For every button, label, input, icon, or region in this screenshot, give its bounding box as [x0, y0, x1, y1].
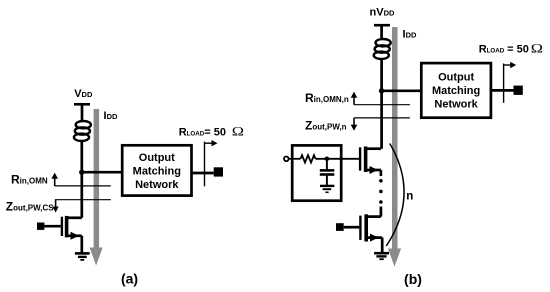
load terminal square	[214, 167, 223, 176]
node drain junction	[79, 170, 84, 175]
input terminal circle	[284, 157, 289, 162]
wire node to OMN box	[82, 171, 122, 174]
svg-text:(b): (b)	[404, 271, 422, 287]
caption (b)	[404, 271, 422, 287]
wire inductor to drain	[80, 141, 83, 218]
svg-text:IDD: IDD	[104, 110, 118, 122]
inductor L1	[74, 121, 91, 141]
wire circle to resistor	[289, 158, 301, 160]
svg-text:Matching: Matching	[133, 166, 181, 178]
label nVDD	[370, 7, 395, 19]
svg-text:Zout,PW,CS: Zout,PW,CS	[6, 200, 54, 214]
svg-text:= 50: = 50	[204, 127, 226, 139]
ground Q3	[374, 253, 389, 259]
wire OMN to load (b)	[491, 89, 514, 92]
arrow Rin up (b)	[351, 92, 358, 105]
arrow Zout down	[53, 200, 59, 213]
transistor Q2 top	[360, 147, 381, 177]
wire nVDD to inductor	[380, 25, 383, 39]
svg-text:Output: Output	[139, 152, 175, 164]
load terminal square (b)	[514, 86, 523, 95]
caption (a)	[121, 270, 138, 286]
reference line Rin	[55, 185, 111, 187]
bias network box	[292, 145, 341, 200]
wire inductor to node (b)	[380, 59, 383, 149]
bracket n	[386, 144, 404, 247]
bent arrow power to load (b)	[504, 62, 517, 68]
resistor R1 zigzag	[301, 155, 316, 162]
svg-text:Network: Network	[434, 99, 478, 111]
gate terminal square Q1	[37, 223, 44, 230]
current IDD gray arrow (b)	[388, 27, 401, 266]
label Zout,PW,n	[305, 118, 347, 132]
reference line Zout	[55, 199, 111, 201]
ground bias	[320, 186, 334, 192]
svg-text:Rin,OMN,n: Rin,OMN,n	[305, 91, 349, 105]
power rail nVDD	[374, 24, 390, 27]
label IDD (b)	[403, 29, 417, 41]
label n	[406, 191, 413, 203]
svg-text:nVDD: nVDD	[370, 7, 395, 19]
svg-text:IDD: IDD	[403, 29, 417, 41]
label Zout,PW,CS	[6, 200, 54, 214]
wire resistor to node	[316, 158, 360, 160]
svg-text:Matching: Matching	[432, 85, 480, 97]
label RLOAD = 50 Ohm (b)	[479, 42, 543, 56]
label IDD	[104, 110, 118, 122]
wire dots to drain Q3	[380, 207, 383, 217]
gate terminal square Q3	[336, 223, 344, 231]
label Rin,OMN	[11, 173, 48, 187]
svg-text:Network: Network	[135, 179, 179, 191]
bent arrow power to load	[205, 140, 218, 146]
transistor Q3 bottom	[360, 214, 382, 253]
svg-text:n: n	[406, 191, 413, 203]
svg-text:RLOAD: RLOAD	[179, 127, 205, 139]
wire gate Q3	[344, 226, 360, 229]
svg-text:Ω: Ω	[531, 42, 543, 56]
arrow Rin up	[51, 173, 58, 186]
inductor L2	[374, 39, 391, 59]
reference line Rin (b)	[354, 104, 410, 106]
wire gate Q1	[44, 225, 60, 228]
label Rin,OMN,n	[305, 91, 349, 105]
svg-text:Output: Output	[438, 72, 474, 84]
label RLOAD = 50 Ohm	[179, 125, 244, 139]
power rail VDD	[74, 103, 90, 106]
svg-text:Zout,PW,n: Zout,PW,n	[305, 118, 347, 132]
current IDD gray arrow	[90, 109, 103, 266]
reference line Zout (b)	[354, 117, 410, 119]
box U1 Output Matching Network	[122, 145, 191, 195]
svg-text:Rin,OMN: Rin,OMN	[11, 173, 48, 187]
capacitor C1	[320, 159, 335, 186]
box U2 Output Matching Network	[421, 63, 491, 118]
label VDD	[74, 88, 93, 100]
stack dots	[379, 179, 383, 204]
svg-text:= 50: = 50	[507, 44, 529, 56]
transistor Q1	[62, 216, 82, 254]
wire OMN to load	[192, 172, 214, 175]
wire VDD to inductor	[81, 104, 84, 121]
svg-text:RLOAD: RLOAD	[479, 44, 505, 56]
arrow Zout down (b)	[351, 118, 358, 131]
svg-text:VDD: VDD	[74, 88, 93, 100]
measurement plane line at load (b)	[503, 64, 505, 103]
node junction (b)	[379, 88, 384, 93]
svg-text:(a): (a)	[121, 270, 138, 286]
ground Q1	[75, 253, 90, 260]
svg-text:Ω: Ω	[232, 125, 244, 139]
measurement plane line at load	[204, 142, 206, 187]
node bias junction	[325, 157, 330, 162]
wire node to OMN box (b)	[382, 89, 422, 92]
